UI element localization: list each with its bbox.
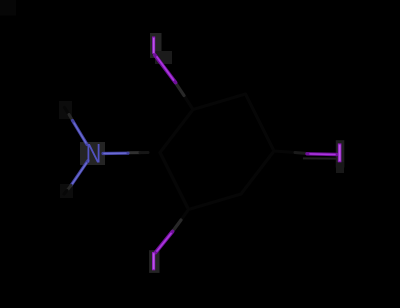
bond N-CH3 upper: carbon half [65,108,70,115]
bond C1-N nitrogen half [103,152,128,156]
wire C2-C3 [193,94,246,110]
bond N-CH3 lower: nitrogen half [71,161,88,186]
shadow line under right bond [303,157,336,159]
label halo N [80,142,105,165]
wire C6-C1 [160,153,189,210]
atom label I right [338,143,342,162]
wire C1-C2 [160,110,193,153]
bond N-CH3 upper: nitrogen half [73,121,88,145]
wire C5-C6 [189,194,242,210]
benzene ring C1-C2-C3-C4-C5-C6 (dark carbon bonds) [160,94,274,210]
bond C6-I bottom: carbon half [181,210,189,221]
halo methyl tip lower [60,184,73,198]
bond C4-I right: iodine half [307,152,337,156]
bond C6-I bottom: iodine half [156,232,173,253]
bond C1-N carbon half [128,151,140,154]
halo methyl tip upper [59,101,72,119]
bond C4-I right: carbon half [274,151,295,153]
bond C2-I top: carbon half [184,96,193,110]
wire C4-C5 [241,151,274,194]
corner watermark remnant [0,0,16,16]
wire C3-C4 [246,94,275,151]
svg-text:N: N [86,139,102,169]
label halo I bottom [149,250,159,273]
label halo I right [336,140,345,167]
bond N-CH3 lower: carbon half [67,186,71,191]
atom label I top [152,37,155,54]
label halo I top [150,33,162,58]
bond C2-I top: iodine half [155,55,176,83]
atom label I bottom [152,252,155,270]
